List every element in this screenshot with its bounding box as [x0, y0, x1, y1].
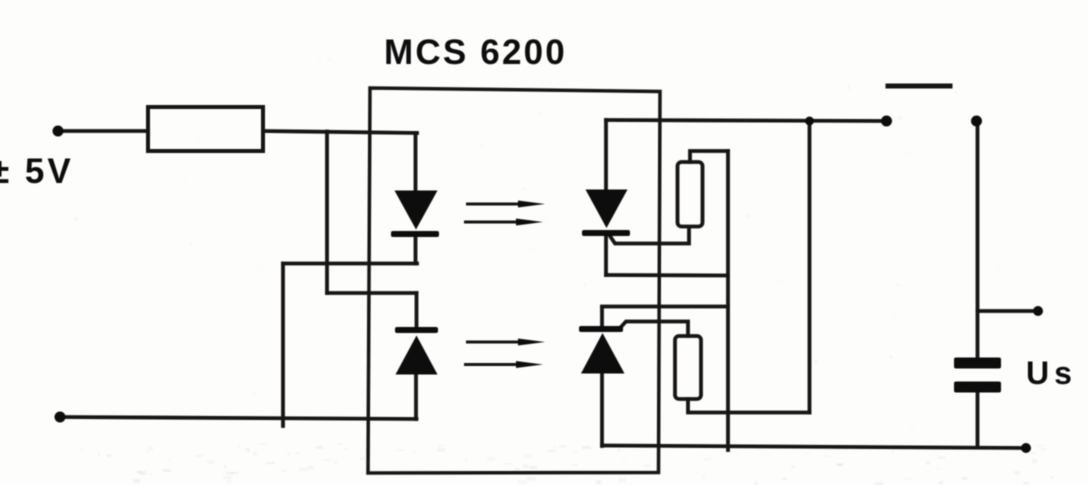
svg-text:± 5V: ± 5V — [0, 152, 74, 191]
svg-text:MCS 6200: MCS 6200 — [384, 33, 567, 72]
svg-text:Us: Us — [1026, 355, 1077, 391]
